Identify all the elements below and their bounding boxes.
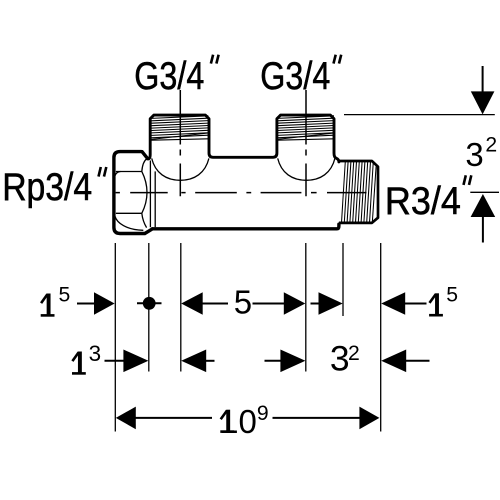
svg-text:G3/4: G3/4 [260, 55, 330, 98]
svg-text:5: 5 [59, 284, 71, 307]
svg-text:0: 0 [239, 403, 257, 440]
svg-text:9: 9 [257, 402, 269, 425]
svg-text:3: 3 [89, 341, 102, 366]
svg-text:G3/4: G3/4 [134, 55, 204, 98]
svg-text:Rp3/4: Rp3/4 [2, 166, 92, 209]
svg-text:3: 3 [465, 136, 483, 173]
svg-text:2: 2 [485, 134, 497, 157]
svg-text:5: 5 [234, 284, 252, 321]
svg-text:5: 5 [446, 283, 458, 306]
svg-text:3: 3 [330, 339, 350, 379]
svg-text:2: 2 [348, 342, 360, 365]
svg-text:R3/4: R3/4 [385, 180, 461, 223]
